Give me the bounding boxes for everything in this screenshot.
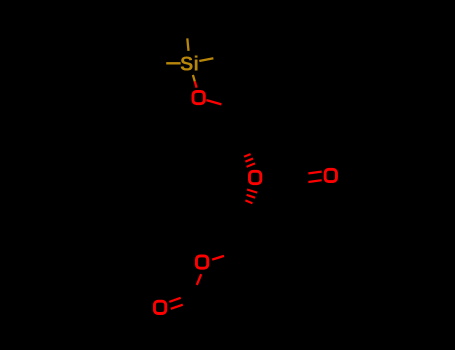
- wire: O1-CH2 half-bond (red): [207, 100, 222, 104]
- wire: Si top methyl half-bond: [187, 38, 188, 51]
- wire: Si-O bond, Si half (olive): [193, 75, 195, 82]
- hashed wedge C1-O2 (upper), red marks: [244, 154, 255, 167]
- oxygen O4 (ester O) label: [196, 256, 207, 268]
- silicon Si (TMS) label: [180, 53, 199, 75]
- wire: Si-O bond, O half (red): [195, 81, 197, 87]
- wire: O4-CH2 half-bond (red, up-right): [212, 256, 224, 260]
- ester C=O double bond, O halves (red): [169, 298, 183, 309]
- wire: Si right methyl half-bond: [199, 58, 213, 61]
- wire: O4-C(=O) half-bond (red, down-left): [197, 274, 201, 285]
- oxygen O5 (ester carbonyl O) label: [154, 301, 165, 313]
- oxygen O1 (TMS ether O) label: [193, 91, 204, 103]
- oxygen O2 (bridge ether O) label: [250, 171, 261, 183]
- ketone C=O double bond, O halves (red): [308, 172, 321, 182]
- oxygen O3 (ketone O) label: [325, 169, 336, 181]
- wire: Si left methyl half-bond: [166, 62, 180, 64]
- hashed wedge O2-C5 (lower), red marks: [245, 190, 257, 204]
- svg-text:Si: Si: [180, 53, 199, 75]
